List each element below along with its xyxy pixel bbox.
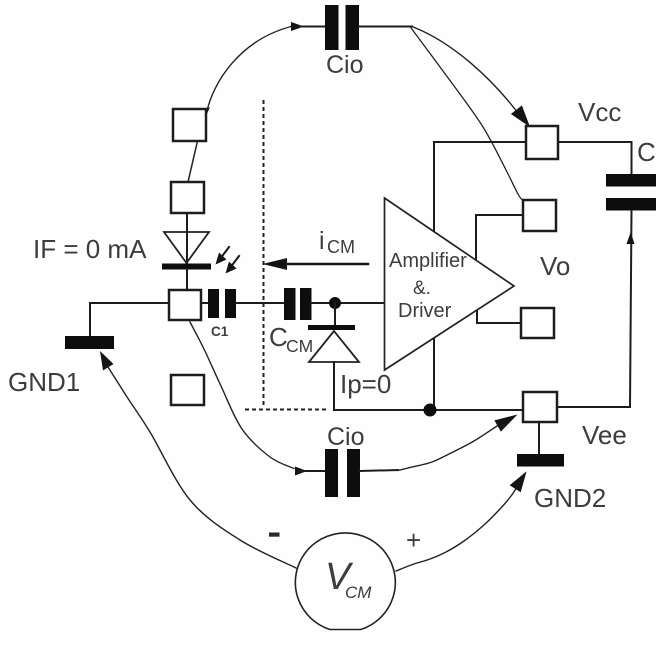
svg-text:&.: &.	[413, 278, 431, 299]
wire: arc from GND1 down to Vcm source (left lead)	[108, 367, 296, 568]
wire: arc from Vcm right lead up to GND2	[396, 487, 517, 571]
pin square P5	[521, 308, 554, 338]
capacitor C1 plates	[208, 289, 219, 318]
svg-text:CM: CM	[286, 336, 313, 356]
dotted isolation boundary vertical	[263, 101, 265, 409]
wire: P3 to C1	[201, 302, 208, 304]
pin square P2	[171, 182, 204, 213]
wire: photodiode anode down to bottom rail	[333, 362, 335, 410]
svg-text:CM: CM	[345, 583, 372, 602]
wire: C1 to Ccm	[236, 302, 284, 304]
voltage source Vcm circle	[295, 533, 395, 630]
ground GND1 bar	[65, 336, 114, 349]
arrowhead into GND2 bar	[510, 471, 527, 492]
wire: Vcc supply drop to amplifier (upper)	[433, 142, 435, 231]
label minus	[269, 533, 280, 537]
pin square Vcc	[526, 126, 558, 159]
svg-text:Driver: Driver	[398, 300, 452, 322]
wire: LED cathode to pin P3	[186, 269, 188, 290]
photodiode D2 cathode bar	[308, 325, 355, 330]
wire: top-left arc from pin square P1 to Cio top	[207, 27, 292, 114]
capacitor C plates	[606, 174, 656, 187]
pin square Vee	[523, 392, 557, 422]
capacitor Ccm plates	[284, 288, 296, 320]
arrowhead into GND1 from Vcm wire	[100, 351, 114, 371]
svg-text:IF = 0 mA: IF = 0 mA	[33, 234, 147, 264]
wire: P3 left to GND1 drop	[90, 303, 169, 336]
wire: Ccm to amplifier input	[312, 302, 385, 304]
LED D1 triangle	[164, 232, 209, 263]
svg-text:C: C	[269, 322, 288, 352]
arrowhead into Vee pin corner	[494, 415, 517, 432]
wire: Vee pin to GND2	[538, 422, 540, 454]
photodiode D2 triangle	[309, 331, 359, 362]
svg-text:+: +	[406, 525, 421, 555]
pin square P4 (unconnected)	[171, 375, 204, 405]
wire: arc from pin P3 bottom around to Cio bottom	[190, 322, 294, 469]
wire: Vcc pin right lead to capacitor C	[558, 142, 632, 174]
wire: capacitor C down to Vee rail	[558, 211, 632, 408]
svg-text:Ip=0: Ip=0	[340, 369, 391, 399]
wire: arc from Cio top to Vcc pin (current path)	[412, 27, 521, 118]
svg-text:CM: CM	[327, 237, 355, 257]
arrowhead into Vcc pin	[511, 105, 530, 127]
arrowhead pointing right toward Cio bottom left plate	[295, 467, 307, 476]
wire: Cio bottom left lead	[299, 470, 325, 472]
wire: arc from Cio bottom up to Vee pin	[398, 426, 497, 471]
LED light arrow 2	[230, 256, 239, 268]
svg-text:Vee: Vee	[582, 420, 627, 450]
LED light arrow 1	[220, 247, 229, 259]
wire: junction down to photodiode	[334, 303, 336, 325]
wire: Cio top left lead	[296, 26, 325, 28]
ground GND2 bar	[517, 454, 564, 467]
svg-text:Cio: Cio	[327, 423, 365, 451]
pin square P3	[169, 290, 201, 320]
wire: Cio bottom right lead	[360, 470, 398, 471]
junction node at photodiode tap	[329, 297, 341, 309]
wire: P2 to LED anode	[186, 213, 188, 264]
svg-text:GND2: GND2	[534, 483, 606, 513]
wire: amplifier lower edge to pin P5	[477, 311, 521, 323]
svg-text:Vcc: Vcc	[578, 97, 621, 127]
capacitor Cio (bottom) plates	[325, 449, 338, 497]
arrowhead up on right rail	[627, 232, 635, 244]
svg-text:i: i	[319, 227, 325, 255]
wire: long arc from Cio top to Vo pin	[410, 27, 523, 201]
junction node on bottom rail	[424, 404, 437, 417]
capacitor Cio (top) plates	[325, 5, 339, 50]
dotted isolation boundary horizontal	[246, 409, 330, 411]
arrowhead into pin P1 top-right corner	[201, 107, 211, 120]
svg-text:C: C	[637, 137, 656, 167]
op-amp U1 Amplifier & Driver triangle	[385, 198, 515, 370]
pin square P1	[173, 109, 206, 141]
arrowhead pointing right toward Cio left plate	[291, 22, 304, 31]
wire: Cio top right lead	[359, 26, 412, 28]
wire: Vcc pin left lead	[434, 141, 526, 143]
arrow iCM pointing left across boundary	[287, 263, 368, 266]
svg-text:Vo: Vo	[540, 251, 570, 281]
svg-text:Cio: Cio	[326, 51, 364, 79]
wire: P1 to P2	[188, 141, 198, 182]
LED D1 cathode bar	[162, 264, 211, 270]
svg-text:C1: C1	[211, 324, 229, 339]
wire: amplifier to bottom rail (lower)	[433, 339, 435, 410]
wire: amplifier output to Vo pin	[476, 215, 523, 259]
pin square Vo	[523, 200, 556, 231]
wire: bottom rail from photodiode to Vee pin	[334, 409, 523, 411]
svg-text:Amplifier: Amplifier	[389, 250, 467, 272]
svg-text:GND1: GND1	[8, 367, 80, 397]
